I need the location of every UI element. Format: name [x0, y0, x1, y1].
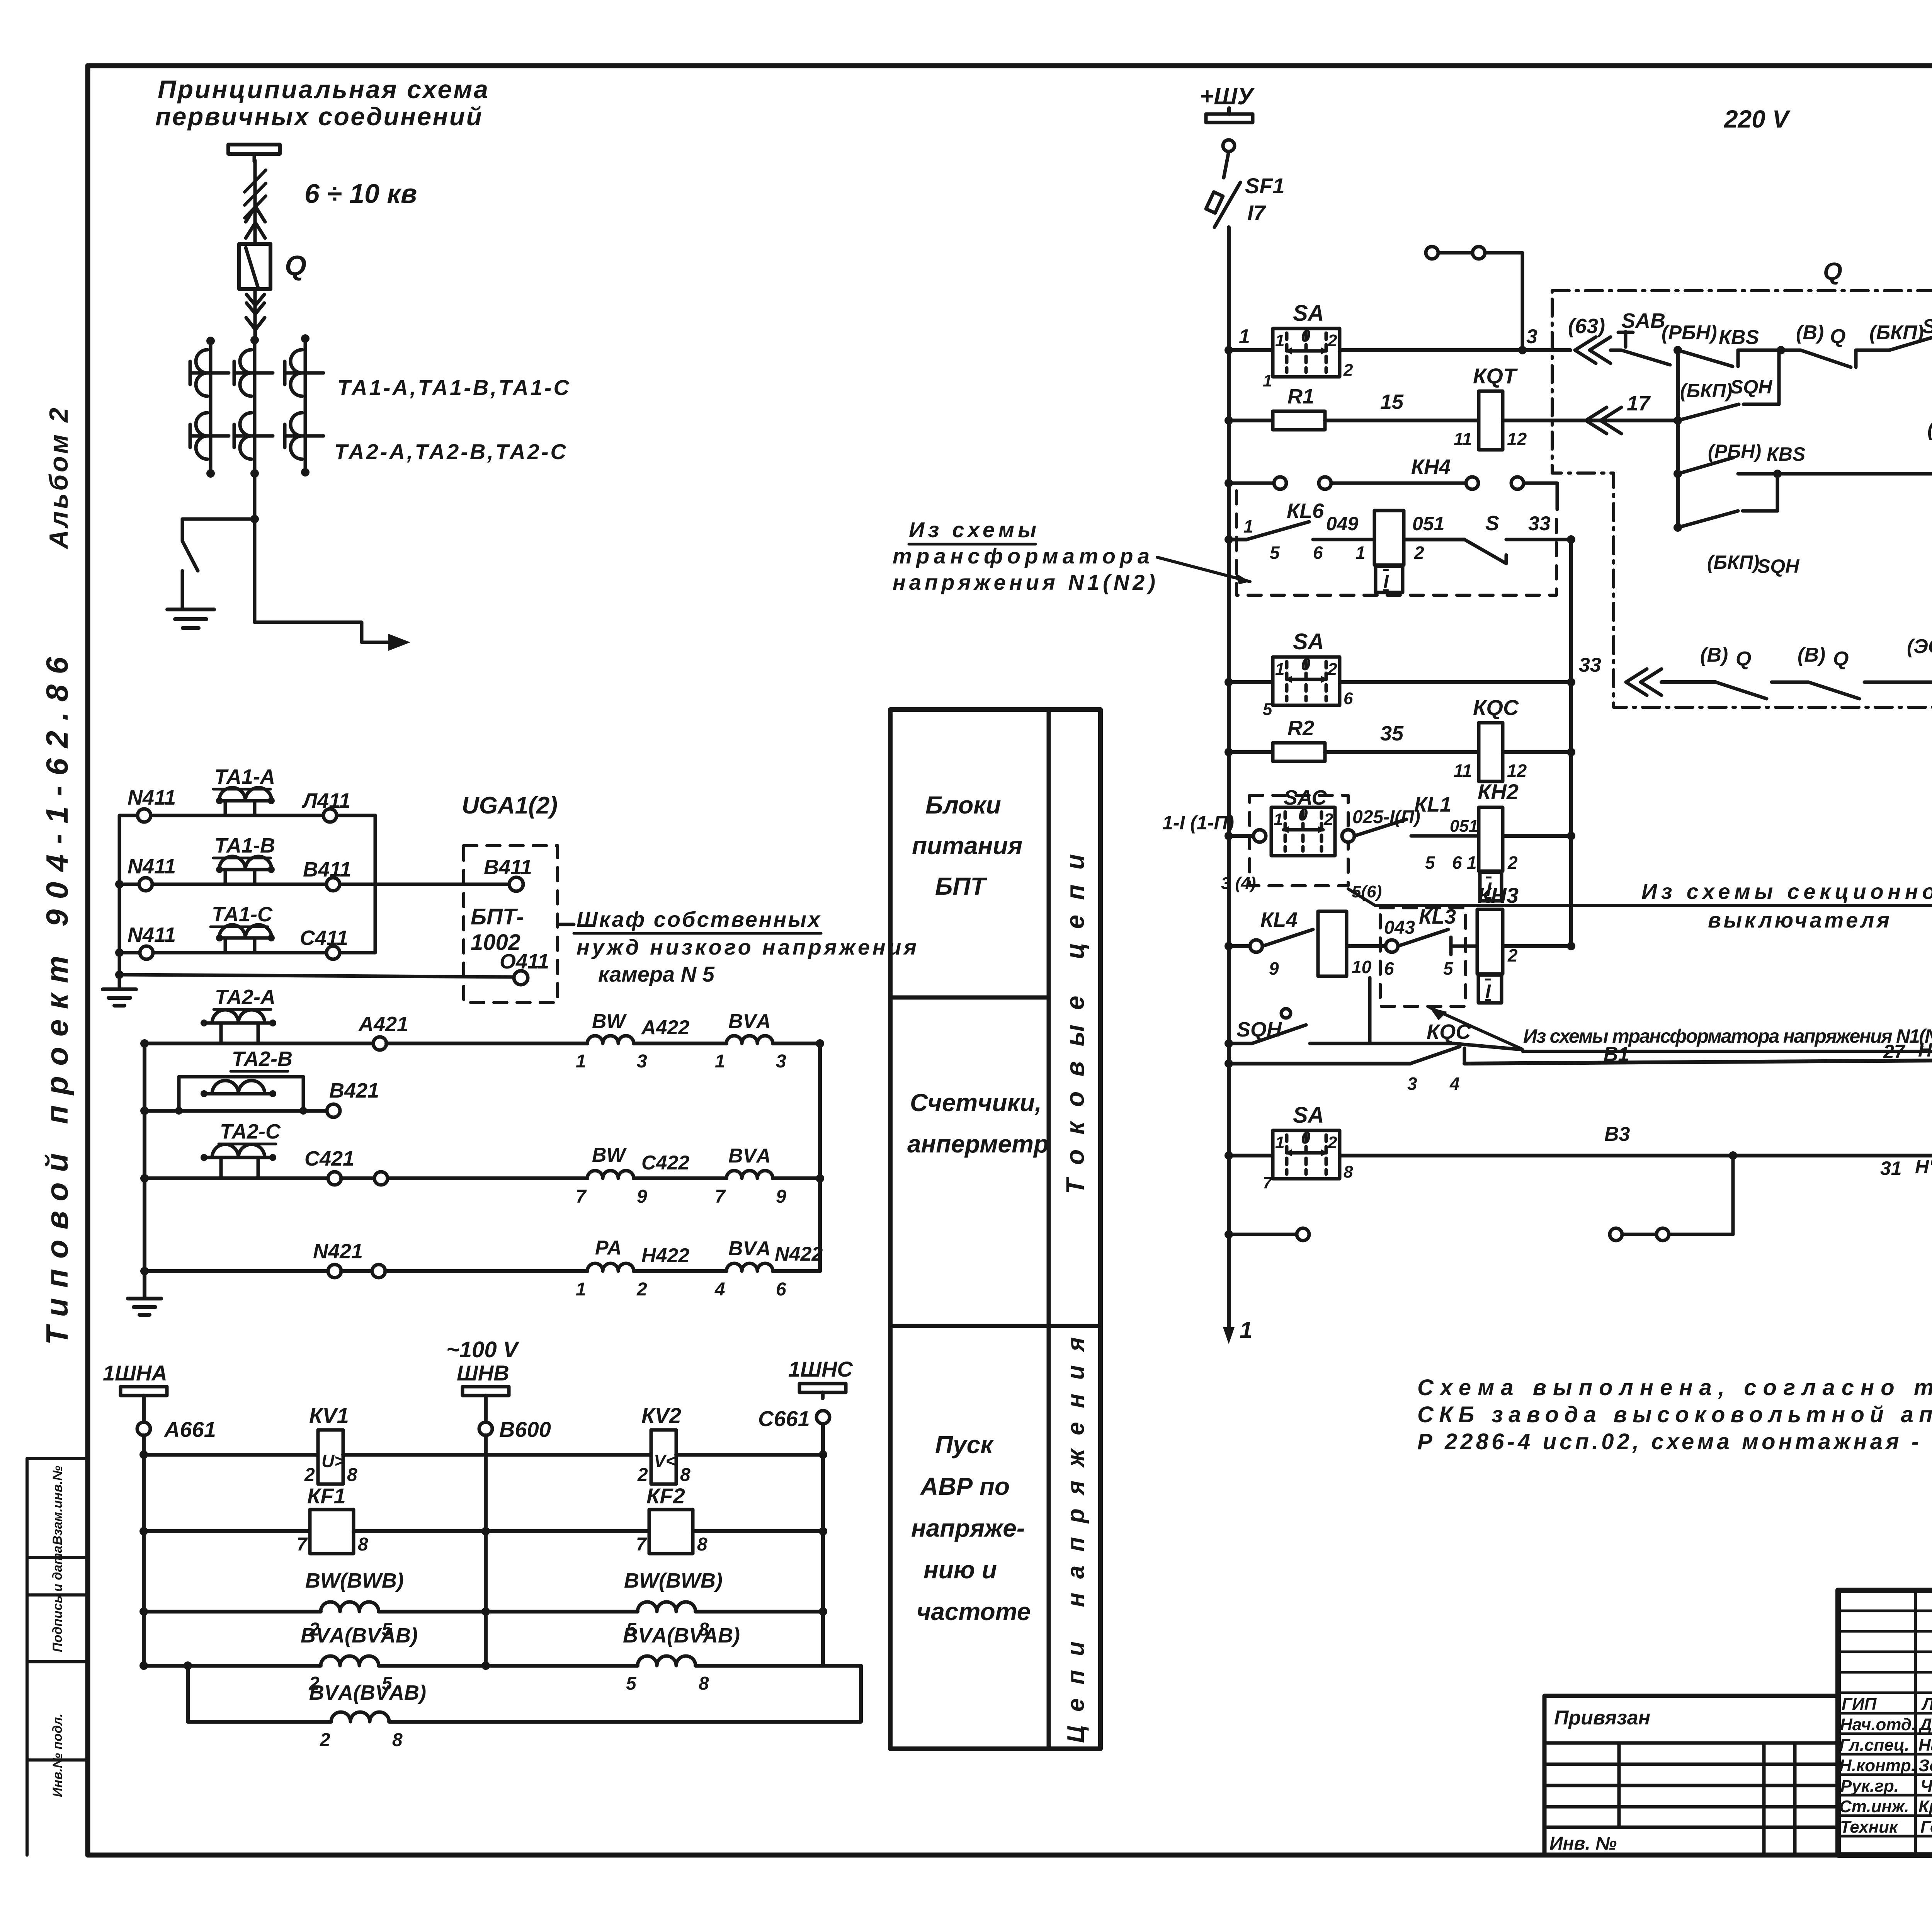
svg-text:КL6: КL6 — [1287, 499, 1324, 523]
svg-text:1ШНС: 1ШНС — [788, 1357, 853, 1381]
label TA1-A — [214, 765, 275, 788]
svg-text:I: I — [1485, 980, 1491, 1002]
branch vertical KBS group — [1676, 350, 1680, 528]
svg-text:8: 8 — [697, 1534, 707, 1555]
svg-text:051: 051 — [1450, 817, 1478, 836]
svg-text:ТА2-В: ТА2-В — [232, 1047, 293, 1071]
terminal N411 a — [138, 809, 151, 822]
svg-text:N411: N411 — [128, 855, 176, 878]
svg-text:1: 1 — [1263, 371, 1272, 390]
svg-text:0: 0 — [1301, 1128, 1311, 1147]
svg-text:(БКП): (БКП) — [1869, 322, 1924, 344]
svg-text:3 (4): 3 (4) — [1221, 874, 1256, 893]
svg-text:2: 2 — [304, 1465, 315, 1485]
pins 5 6 / 051 — [1425, 853, 1462, 873]
arrow down symbol — [247, 294, 264, 305]
pins 2 8 — [637, 1465, 690, 1485]
label (BKP)SQN — [1680, 376, 1772, 402]
label (RBN) KBS row C — [1708, 441, 1805, 465]
SA pins — [1263, 327, 1353, 390]
svg-text:2: 2 — [1507, 945, 1518, 965]
label TA2-A — [215, 985, 276, 1009]
terminal 043 — [1386, 940, 1398, 952]
contact SAB — [1611, 332, 1670, 365]
wire — [354, 1529, 649, 1533]
contact KL6 — [1247, 522, 1374, 540]
margin table rotated labels — [50, 1465, 65, 1797]
terminal N421 a — [328, 1265, 341, 1278]
svg-text:КL4: КL4 — [1260, 908, 1298, 931]
svg-text:7: 7 — [636, 1534, 647, 1555]
svg-text:ВVА(ВVАВ): ВVА(ВVАВ) — [301, 1624, 418, 1647]
wire row C421 — [145, 1176, 328, 1180]
chevron 17 — [1586, 407, 1621, 434]
terminal O411 BPT — [514, 971, 528, 985]
svg-text:1: 1 — [1239, 325, 1250, 348]
busbar 1ShNS — [799, 1384, 846, 1398]
wire to 1ShNS — [693, 1529, 823, 1533]
svg-text:4: 4 — [1449, 1074, 1460, 1094]
label (B)Q second — [1798, 644, 1849, 670]
svg-text:5: 5 — [1425, 853, 1435, 873]
svg-text:РА: РА — [595, 1237, 622, 1259]
label BPT-1002 — [471, 904, 524, 955]
squiggle marks on feeder — [245, 170, 266, 218]
CT TA1-A — [190, 350, 229, 396]
node KL6 row right — [1567, 535, 1575, 544]
coil BW(BWB) left — [321, 1602, 379, 1612]
coil PA — [587, 1263, 634, 1271]
svg-text:С661: С661 — [758, 1406, 810, 1431]
wire row A421 — [145, 1042, 373, 1045]
svg-text:Счетчики,: Счетчики, — [910, 1089, 1042, 1117]
title: Принципиальная схема первичных соединений — [155, 75, 488, 209]
SAC pins — [1221, 805, 1382, 901]
svg-text:первичных соединений: первичных соединений — [155, 102, 482, 131]
terminal B600 — [479, 1422, 492, 1435]
svg-text:ВW(ВWВ): ВW(ВWВ) — [624, 1569, 723, 1592]
wire B411 to BPT — [340, 883, 510, 886]
pins 1 2 / 051 — [1355, 543, 1424, 563]
svg-text:камера N 5: камера N 5 — [598, 962, 715, 986]
svg-text:ВVА: ВVА — [728, 1145, 771, 1167]
svg-text:ТА1-А,ТА1-В,ТА1-С: ТА1-А,ТА1-В,ТА1-С — [337, 375, 570, 400]
svg-text:В600: В600 — [499, 1417, 551, 1442]
svg-text:ВW: ВW — [592, 1144, 627, 1166]
contact (B)Q second — [1808, 682, 1932, 699]
svg-text:5: 5 — [1270, 543, 1280, 563]
wire bottom row — [188, 1720, 331, 1724]
wire row N421 — [145, 1269, 328, 1273]
svg-text:нию и: нию и — [923, 1556, 997, 1584]
wire — [153, 951, 327, 955]
wire to right bus — [340, 951, 375, 955]
wire row TA1-B — [119, 883, 139, 886]
relay coil KQT — [1479, 391, 1503, 450]
svg-text:I7: I7 — [1247, 201, 1267, 225]
svg-text:1: 1 — [576, 1051, 586, 1072]
svg-text:6 ÷ 10 кв: 6 ÷ 10 кв — [304, 179, 417, 209]
svg-text:SА: SА — [1293, 1103, 1324, 1128]
svg-text:анперметр: анперметр — [907, 1130, 1049, 1158]
svg-text:8: 8 — [680, 1465, 690, 1485]
disconnector Q — [239, 244, 270, 289]
wire row SA2 left — [1229, 680, 1273, 684]
pins 11 12 — [1454, 429, 1527, 449]
terminal B411 — [327, 878, 340, 891]
contact SQH bottom — [1229, 978, 1522, 1050]
svg-text:1: 1 — [1243, 516, 1253, 536]
svg-text:КН4: КН4 — [1411, 455, 1451, 478]
note text iz skhemy transformatora left — [893, 517, 1155, 594]
svg-text:R1: R1 — [1287, 385, 1314, 408]
wire — [634, 1269, 726, 1273]
svg-text:БПТ: БПТ — [935, 872, 987, 900]
svg-text:КL1: КL1 — [1414, 793, 1451, 816]
CT TA2-A — [190, 413, 229, 459]
svg-text:ТА2-А: ТА2-А — [215, 985, 276, 1009]
svg-text:Инв.№ подл.: Инв.№ подл. — [50, 1713, 65, 1797]
svg-text:33: 33 — [1528, 512, 1551, 535]
svg-text:Кравцова: Кравцова — [1918, 1797, 1932, 1816]
svg-text:1: 1 — [715, 1051, 725, 1072]
svg-text:КL3: КL3 — [1419, 905, 1456, 928]
junction dots CT tops — [206, 334, 310, 478]
label SF1 I7 — [1245, 174, 1285, 225]
terminal +ShU — [1223, 140, 1235, 151]
svg-text:Пуск: Пуск — [935, 1431, 994, 1459]
terminal L411 — [323, 809, 337, 822]
pins 1 3 — [715, 1051, 786, 1072]
svg-text:1: 1 — [1355, 543, 1366, 563]
svg-text:БПТ-: БПТ- — [471, 904, 524, 929]
svg-text:Типовой проект 904-1-62.86: Типовой проект 904-1-62.86 — [40, 657, 74, 1345]
wire KH3 to bus — [1503, 944, 1571, 948]
svg-text:ТА2-С: ТА2-С — [220, 1120, 281, 1143]
schema note text — [1417, 1375, 1932, 1454]
busbar ShNV — [463, 1387, 509, 1401]
svg-text:SА: SА — [1293, 301, 1324, 326]
margin table bottom-left — [27, 1459, 88, 1855]
terminal B421 — [327, 1104, 340, 1117]
coil BW phase C — [587, 1171, 634, 1178]
TA2 secondary left bus — [143, 1043, 146, 1299]
CT TA1-C — [285, 350, 323, 396]
switch SA row A — [1273, 328, 1340, 377]
wire from ShNV — [484, 1396, 488, 1422]
svg-text:3: 3 — [1407, 1074, 1417, 1094]
wire to right bus — [773, 1269, 820, 1273]
wire — [341, 1269, 372, 1273]
svg-text:Нач.отд.: Нач.отд. — [1840, 1715, 1916, 1734]
busbar +ShU — [1206, 108, 1253, 123]
privyazan labels — [1549, 1707, 1650, 1854]
terminal C411 — [327, 946, 340, 959]
terminal C421 a — [328, 1172, 341, 1185]
svg-text:(63): (63) — [1568, 315, 1605, 338]
svg-text:7: 7 — [1263, 1173, 1273, 1192]
svg-text:8: 8 — [358, 1534, 368, 1555]
divider Schetchiki / Pusk AVR — [890, 1324, 1100, 1328]
svg-text:(РБН)КВS: (РБН)КВS — [1927, 418, 1932, 441]
ground symbol feeder — [167, 609, 214, 628]
svg-text:N411: N411 — [128, 923, 176, 946]
svg-text:ТА2-А,ТА2-В,ТА2-С: ТА2-А,ТА2-В,ТА2-С — [334, 439, 567, 464]
svg-text:Взам.инв.№: Взам.инв.№ — [50, 1465, 65, 1545]
wire — [634, 1042, 726, 1045]
svg-text:6: 6 — [1313, 543, 1323, 563]
test links above row A — [1426, 247, 1522, 346]
svg-text:(БКП): (БКП) — [1680, 380, 1732, 402]
svg-text:КВS: КВS — [1719, 326, 1759, 349]
TA1 secondary left bus — [118, 815, 121, 989]
busbar 1ShNA — [121, 1387, 167, 1401]
pins 5 8 — [626, 1619, 709, 1640]
CT TA2-C secondary — [201, 1144, 276, 1178]
svg-text:КQТ: КQТ — [1473, 364, 1518, 388]
terminal C421 b — [374, 1172, 388, 1185]
pins 7 8 — [297, 1534, 368, 1555]
svg-text:1-I (1-П): 1-I (1-П) — [1162, 812, 1234, 834]
svg-text:7: 7 — [576, 1186, 587, 1207]
pins 2 8 — [320, 1730, 403, 1750]
svg-text:Н: Н — [1918, 1039, 1932, 1061]
svg-text:частоте: частоте — [917, 1598, 1031, 1625]
relay KF2 — [649, 1510, 693, 1554]
pins 7 9 — [715, 1186, 786, 1207]
contact S — [1464, 540, 1571, 563]
relay coil KL4 box — [1318, 911, 1347, 976]
svg-text:3: 3 — [637, 1051, 647, 1072]
wire row TA1-A — [119, 814, 138, 817]
coil BVA(BVAB) bottom — [331, 1712, 389, 1722]
wire row BVA — [144, 1664, 321, 1668]
node SAC row bus — [1567, 832, 1575, 840]
terminal N411 b — [139, 878, 152, 891]
svg-text:(РБН): (РБН) — [1708, 441, 1761, 462]
svg-text:В411: В411 — [303, 858, 351, 881]
wire to right bus — [773, 1042, 820, 1045]
svg-text:3: 3 — [776, 1051, 786, 1072]
contact KBS row C — [1678, 458, 1932, 474]
svg-text:5: 5 — [1263, 700, 1272, 719]
staff rows — [1838, 1611, 1932, 1836]
svg-text:2: 2 — [1414, 543, 1424, 563]
label 1 / 5 6 — [1243, 516, 1323, 563]
coil BVA(BVAB) right — [638, 1656, 696, 1666]
svg-text:С421: С421 — [304, 1147, 354, 1170]
svg-text:КQС: КQС — [1427, 1020, 1471, 1043]
coil BVA N — [726, 1263, 773, 1271]
svg-text:ТА1-В: ТА1-В — [214, 834, 275, 857]
CT TA1-B — [234, 350, 273, 396]
SA3 pins — [1263, 1128, 1353, 1192]
svg-text:(ЭО): (ЭО) — [1907, 635, 1932, 658]
wire B3 — [1340, 1154, 1932, 1157]
svg-text:2: 2 — [1507, 853, 1518, 873]
column block outer box — [890, 710, 1100, 1749]
relay coil KH2 — [1479, 807, 1503, 901]
node row B — [1673, 416, 1682, 425]
SA2 pins — [1263, 655, 1353, 719]
svg-text:2: 2 — [1327, 660, 1337, 679]
label TA1-C — [212, 903, 273, 926]
resistor R2 — [1273, 743, 1325, 761]
pins 2 5 — [309, 1673, 393, 1694]
CT TA1-C secondary — [216, 925, 275, 953]
svg-text:0: 0 — [1301, 327, 1311, 346]
pins 6 5 — [1384, 958, 1454, 979]
leader arrow KL3 box — [1430, 1008, 1522, 1049]
column texts — [907, 791, 1049, 1625]
contact KL1 — [1354, 819, 1479, 836]
svg-text:2: 2 — [1327, 1133, 1337, 1152]
svg-text:(БКП): (БКП) — [1707, 551, 1759, 573]
svg-text:Золотарево: Золотарево — [1918, 1756, 1932, 1775]
voltage left bus — [142, 1435, 146, 1666]
svg-text:выключателя: выключателя — [1708, 908, 1889, 932]
wire row KF — [144, 1529, 310, 1533]
svg-text:SQН: SQН — [1730, 376, 1772, 398]
svg-text:2: 2 — [1327, 331, 1337, 350]
node KH3 row bus — [1567, 942, 1575, 950]
privyazan table — [1544, 1696, 1838, 1855]
svg-text:11: 11 — [1454, 429, 1472, 449]
dashed box KH4 group — [1236, 491, 1556, 595]
svg-text:1: 1 — [1275, 331, 1284, 350]
svg-text:С411: С411 — [300, 926, 348, 950]
pins 31 H K 32 — [1880, 1156, 1932, 1179]
svg-text:35: 35 — [1380, 722, 1404, 745]
dashed box KL3 — [1380, 908, 1466, 1006]
pins 2 5 — [309, 1619, 393, 1640]
terminal C661 — [816, 1411, 830, 1424]
contact SQH row D — [1678, 474, 1777, 528]
svg-text:А421: А421 — [358, 1013, 408, 1036]
node row A / KBS — [1673, 346, 1682, 354]
svg-text:(В): (В) — [1798, 644, 1825, 666]
svg-text:11: 11 — [1454, 761, 1472, 781]
svg-text:Подпись и дата: Подпись и дата — [50, 1545, 65, 1652]
dash-dot box Q — [1552, 291, 1932, 707]
svg-text:Привязан: Привязан — [1554, 1707, 1650, 1729]
relay KV1 — [318, 1430, 345, 1484]
svg-text:1: 1 — [1274, 810, 1283, 829]
svg-text:3: 3 — [1526, 325, 1537, 348]
leader to sektsionnogo — [1348, 889, 1932, 905]
bottom row riser left — [186, 1666, 190, 1722]
node after KBS — [1777, 346, 1785, 354]
svg-text:Нашельский: Нашельский — [1918, 1736, 1932, 1755]
svg-text:+ШУ: +ШУ — [1200, 83, 1255, 110]
svg-text:КF1: КF1 — [307, 1484, 346, 1508]
node dots on plus bus — [1225, 346, 1233, 1239]
wire — [379, 1610, 638, 1614]
wire row B3 left — [1229, 1154, 1273, 1157]
svg-text:Ст.инж.: Ст.инж. — [1839, 1797, 1909, 1816]
svg-text:10: 10 — [1352, 957, 1372, 977]
node B3 riser — [1729, 1151, 1737, 1160]
svg-text:R2: R2 — [1287, 717, 1314, 740]
svg-text:КВS: КВS — [1767, 443, 1805, 465]
svg-text:Чапны: Чапны — [1920, 1777, 1932, 1796]
wire row KQC-B1 left — [1229, 1062, 1410, 1065]
svg-text:Инв. №: Инв. № — [1549, 1833, 1617, 1854]
svg-text:2: 2 — [636, 1279, 647, 1300]
coil BW phase A — [587, 1036, 634, 1043]
svg-text:SQН: SQН — [1757, 555, 1799, 577]
TA2-B bypass loop — [179, 1077, 303, 1111]
relay coil KQC — [1479, 723, 1503, 781]
feeder outgoing arrow — [255, 622, 410, 651]
svg-text:Рук.гр.: Рук.гр. — [1840, 1777, 1899, 1796]
svg-text:27: 27 — [1883, 1041, 1906, 1062]
pins 4 6 — [714, 1279, 786, 1300]
title block outer — [1838, 1590, 1932, 1855]
label (RBN) KBS — [1662, 322, 1759, 349]
wire row A to node 3 — [1340, 348, 1570, 352]
test links above KL6 row — [1229, 477, 1557, 509]
earthing switch blade — [182, 519, 198, 609]
svg-text:6: 6 — [776, 1279, 786, 1300]
svg-text:049: 049 — [1326, 513, 1359, 534]
wire row E — [1662, 680, 1716, 684]
labels N411 — [128, 786, 351, 950]
svg-text:12: 12 — [1507, 429, 1527, 449]
wire below Q — [253, 289, 257, 339]
leader to cabinet note — [558, 923, 574, 926]
svg-text:Р 2286-4 исп.02, схема монта: Р 2286-4 исп.02, схема монтажная - ОКА.3… — [1417, 1429, 1932, 1454]
CT TA1-A secondary — [216, 788, 275, 815]
TA2 right bus — [818, 1043, 822, 1271]
svg-text:2: 2 — [320, 1730, 330, 1750]
wire — [343, 1453, 651, 1457]
label S / 33 — [1485, 512, 1551, 535]
contact (BKP)SQH row A — [1874, 334, 1932, 350]
switch SA row 2 — [1273, 657, 1340, 705]
svg-text:ШНВ: ШНВ — [457, 1361, 509, 1385]
BPT block UGA1(2) dashed box — [464, 846, 558, 1003]
label (B)Q — [1796, 322, 1845, 348]
breaker SF1 left — [1206, 151, 1240, 227]
relay coil KH3 — [1477, 909, 1503, 1003]
wire from 1ShNA — [142, 1396, 146, 1422]
svg-text:7: 7 — [715, 1186, 726, 1207]
cabinet note text — [577, 907, 917, 986]
CT TA2-B — [234, 413, 273, 459]
contact (B)Q row A — [1781, 350, 1874, 367]
svg-text:Давыдов: Давыдов — [1918, 1715, 1932, 1734]
busbar 6-10kV — [228, 145, 280, 162]
note text iz skhemy sektsionnogo — [1641, 879, 1932, 932]
terminal KL4 — [1250, 940, 1262, 952]
wire bottom row right — [389, 1720, 861, 1724]
svg-text:~100 V: ~100 V — [446, 1337, 520, 1362]
terminal N421 b — [372, 1265, 385, 1278]
wire O411 row — [119, 975, 514, 977]
svg-text:9: 9 — [637, 1186, 647, 1207]
CT TA2-A secondary — [201, 1010, 276, 1043]
svg-text:S: S — [1485, 512, 1499, 535]
label (BKP)SQH row D — [1707, 551, 1799, 577]
right bus of left section — [1569, 540, 1573, 946]
svg-text:5: 5 — [626, 1673, 637, 1694]
node R2 row bus — [1567, 748, 1575, 756]
svg-text:КF2: КF2 — [646, 1484, 685, 1508]
svg-text:5(6): 5(6) — [1352, 882, 1382, 901]
svg-text:В3: В3 — [1604, 1123, 1630, 1145]
svg-text:В1: В1 — [1604, 1043, 1629, 1065]
